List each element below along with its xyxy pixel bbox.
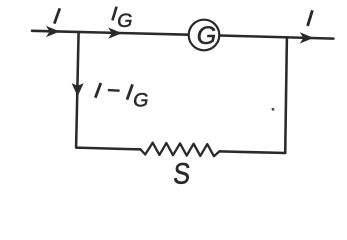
svg-text:S: S (172, 157, 192, 190)
svg-text:G: G (197, 22, 216, 50)
svg-text:G: G (133, 89, 148, 111)
svg-text:G: G (117, 10, 132, 32)
